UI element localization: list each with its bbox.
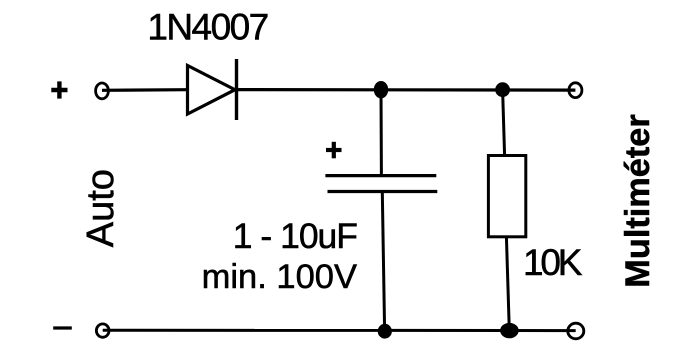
wire (diode cathode to output terminal, through nodes A and B)	[237, 88, 575, 92]
terminal J1- (negative input, open circle)	[96, 324, 109, 337]
svg-text:10K: 10K	[523, 242, 583, 283]
diode D1 cathode bar	[235, 59, 238, 120]
svg-text:1 - 10uF: 1 - 10uF	[233, 216, 358, 256]
minus polarity label at left negative terminal	[53, 326, 72, 329]
node D (junction: resistor bottom on rail)	[500, 323, 519, 338]
resistor R1 (box symbol)	[488, 156, 525, 237]
plus polarity label at left input terminal	[51, 81, 67, 98]
wire (node A down to capacitor top plate)	[380, 90, 383, 177]
svg-text:Multiméter: Multiméter	[619, 114, 657, 287]
terminal J2+ (positive output, open circle)	[569, 83, 582, 98]
terminal J1+ (positive input, open circle)	[96, 83, 109, 99]
svg-text:1N4007: 1N4007	[147, 7, 267, 48]
capacitor C1 top plate	[325, 174, 436, 177]
capacitor C1 polarity plus	[326, 142, 342, 159]
svg-text:min. 100V: min. 100V	[202, 258, 357, 296]
svg-text:Auto: Auto	[80, 169, 122, 247]
node B (junction: resistor top)	[495, 82, 510, 97]
node A (junction: diode/capacitor)	[374, 81, 388, 98]
wire (resistor R1 bottom down to node D)	[506, 237, 509, 331]
wire (node B down to resistor R1 top)	[503, 90, 505, 156]
terminal J2- (negative output, open circle)	[568, 323, 584, 339]
capacitor C1 bottom plate	[328, 190, 438, 193]
wire (left input to diode anode)	[102, 88, 187, 92]
diode D1 1N4007 (anode triangle)	[188, 66, 236, 115]
wire (capacitor bottom plate down to node C)	[382, 192, 384, 330]
node C (junction: capacitor bottom on rail)	[378, 324, 392, 339]
wire (bottom rail: negative input to negative output)	[103, 329, 576, 332]
